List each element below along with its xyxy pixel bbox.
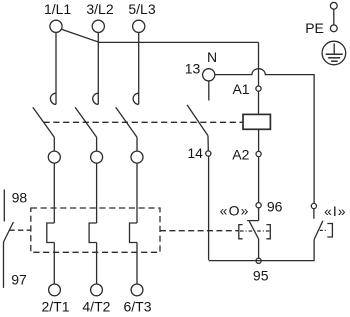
aux contact 13-14 [187,81,209,151]
svg-text:13: 13 [185,60,201,76]
wire L3 terminal to pole3 contact [138,33,140,105]
overload heater pole 2 [89,223,97,243]
terminal 95 [253,258,269,284]
node circle pole 1 [48,151,60,163]
svg-text:A2: A2 [232,147,249,163]
wire pole3 heater to T3 [136,243,138,285]
svg-text:98: 98 [12,189,28,205]
contactor coil KM [243,114,270,129]
linkage overload box to O contact [160,230,239,232]
linkage dash-dot through O blade [240,230,270,232]
node circle pole 2 [91,151,103,163]
wire pole2 node to overload [96,163,98,223]
wire coil A2 to contact 96 [258,129,260,220]
svg-text:5/L3: 5/L3 [128,1,155,17]
start button I NO contact [311,203,323,239]
terminal 14 [187,145,211,161]
svg-text:3/L2: 3/L2 [86,1,113,17]
contactor main contact pole 3 [116,93,139,151]
svg-text:96: 96 [267,198,283,214]
terminal PE [305,2,337,35]
wire pole1 node to overload [53,163,55,223]
overload heater pole 3 [130,223,138,243]
terminal 5/L3 [128,1,155,32]
thermal overload relay dashed box [31,208,160,252]
svg-text:14: 14 [187,145,203,161]
linkage overload aux to box [9,229,31,231]
node circle pole 3 [131,151,143,163]
terminal 2/T1 [41,284,69,315]
actuator bracket right of O [266,225,270,239]
stop button O NC contact [247,221,259,259]
actuator link I [320,229,328,231]
svg-text:95: 95 [253,268,269,284]
bottom rail wire [209,239,315,260]
wire L2 terminal to pole2 contact [97,33,99,105]
tap wire from L1 to control circuit [61,29,258,42]
svg-text:6/T3: 6/T3 [123,299,151,315]
terminal 3/L2 [86,1,113,32]
svg-text:«O»: «O» [220,203,250,219]
svg-text:PE: PE [305,20,324,36]
contactor main contact pole 1 [33,93,56,151]
svg-text:A1: A1 [232,81,249,97]
terminal 96 [256,198,283,214]
protective earth ground symbol [322,41,346,65]
overload heater pole 1 [47,223,55,243]
wire pole3 node to overload [136,163,138,223]
wire pole1 heater to T1 [53,243,55,285]
terminal 1/L1 [44,1,71,32]
svg-text:97: 97 [11,271,27,287]
terminal A1 [232,81,261,97]
actuator bracket left of O [239,225,243,239]
contactor main contact pole 2 [75,93,98,151]
terminal A2 [232,147,261,163]
terminal 4/T2 [82,284,110,315]
overload aux contact 97-98 [4,189,28,288]
wire pole2 heater to T2 [96,243,98,285]
wire 14 down to bottom rail [208,156,210,260]
svg-text:«I»: «I» [324,203,346,219]
actuator bracket I [327,224,332,238]
terminal N [185,49,217,81]
svg-text:4/T2: 4/T2 [82,299,110,315]
mechanical linkage dashed line contacts to coil [44,121,244,123]
wire N to start button with hop over A1 wire [215,69,314,204]
svg-text:2/T1: 2/T1 [41,299,69,315]
svg-text:1/L1: 1/L1 [44,1,71,17]
svg-text:N: N [207,49,217,65]
terminal 6/T3 [123,284,151,315]
wire L1 terminal to pole1 contact [55,33,57,105]
wire down to coil A1 [258,42,260,114]
